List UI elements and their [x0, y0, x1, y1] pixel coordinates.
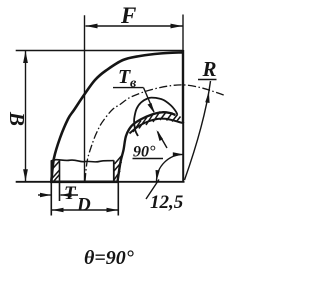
- svg-text:D: D: [76, 195, 91, 216]
- arrow B bottom: [23, 169, 28, 181]
- arrow T right: [61, 193, 72, 198]
- inner arc of elbow: [118, 112, 176, 181]
- dimension R leader: [185, 81, 211, 180]
- svg-text:в: в: [130, 76, 137, 91]
- hatch mid band stroke 1: [133, 121, 141, 133]
- hatch mid band stroke 7: [172, 115, 178, 122]
- hatch bottom-left band stroke 2: [52, 170, 60, 179]
- hatch bottom-right band stroke 1: [114, 162, 122, 171]
- arrow 90 bottom: [156, 170, 160, 181]
- hatch bottom-left band stroke 3: [54, 175, 60, 182]
- R shelf: [198, 79, 217, 81]
- wavy break line bottom section: [51, 160, 114, 162]
- wire bottom face thick segment: [50, 181, 119, 184]
- bore right wall line: [113, 160, 115, 181]
- Tв lower arrow shaft: [158, 132, 168, 149]
- dimension T arrows: [38, 194, 51, 196]
- arrow Tв lower: [157, 130, 164, 141]
- wire right face line: [182, 15, 184, 53]
- dimension D line: [52, 209, 118, 211]
- hatch mid band stroke 6: [167, 113, 173, 121]
- 90 degree dimension arc: [157, 154, 184, 181]
- Tв shelf: [113, 87, 144, 89]
- arrow D left: [52, 208, 64, 213]
- arrow F left: [86, 24, 98, 29]
- svg-text:90°: 90°: [133, 144, 156, 161]
- arrow Tв: [148, 103, 155, 114]
- wire axis extension line F: [84, 15, 86, 181]
- hatch bottom-left band stroke 1: [52, 161, 60, 170]
- svg-text:T: T: [64, 183, 77, 204]
- dimension F line: [86, 25, 183, 27]
- hatch mid band stroke 3: [146, 114, 154, 126]
- 90 underline: [133, 158, 164, 160]
- wire top tangent extension line: [16, 50, 183, 52]
- centerline arc dash-dot: [85, 85, 224, 181]
- svg-text:θ=90°: θ=90°: [84, 247, 134, 269]
- arrow 90 right: [173, 152, 184, 156]
- bore edge curve of mid section: [130, 119, 184, 134]
- hatch mid band stroke 5: [160, 112, 167, 121]
- outer arc of elbow: [51, 52, 183, 181]
- svg-text:12,5: 12,5: [150, 192, 184, 213]
- arrow T left: [40, 193, 51, 198]
- arrow R: [205, 92, 209, 104]
- hatch bottom-right band stroke 2: [114, 171, 120, 180]
- wire bottom face line: [16, 181, 185, 183]
- dimension B line: [25, 51, 27, 181]
- D right extension line: [117, 182, 119, 216]
- arrow F right: [171, 24, 183, 29]
- arrow D right: [107, 208, 119, 213]
- svg-text:R: R: [202, 57, 217, 81]
- hatch mid band stroke 8: [177, 117, 181, 122]
- hatch mid band stroke 4: [153, 112, 160, 123]
- svg-text:F: F: [120, 3, 136, 28]
- dome break line of mid section: [134, 98, 177, 136]
- arrow B top: [23, 51, 28, 63]
- roughness tick 12,5: [146, 180, 159, 200]
- Tв leader: [144, 88, 155, 112]
- outer left wall extension line: [50, 161, 52, 216]
- svg-text:B: B: [5, 111, 29, 126]
- hatch bottom-right band stroke 3: [115, 156, 122, 165]
- bore left wall line: [59, 160, 61, 202]
- hatch mid band stroke 2: [139, 117, 147, 129]
